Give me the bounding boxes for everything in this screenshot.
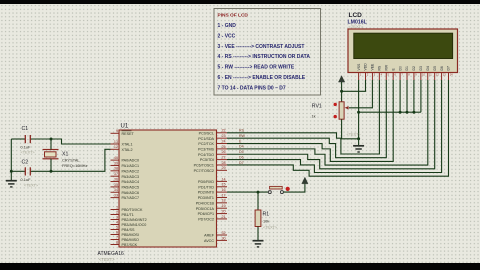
svg-text:6 - EN ---------> ENABLE OR DI: 6 - EN ---------> ENABLE OR DISABLE: [218, 75, 306, 81]
svg-text:29: 29: [221, 166, 225, 170]
svg-text:PB5/MOSI: PB5/MOSI: [122, 233, 139, 237]
capacitor C1: [25, 135, 30, 143]
power VCC (above RV1): [338, 75, 344, 82]
net label E: [239, 139, 242, 143]
svg-text:PA4/ADC4: PA4/ADC4: [122, 180, 140, 184]
junction VDD/VCC: [340, 90, 343, 93]
svg-text:D6: D6: [440, 66, 444, 70]
svg-text:40: 40: [114, 156, 118, 160]
svg-text:CRYSTAL: CRYSTAL: [62, 158, 80, 163]
value C1 0.1uF: [21, 144, 32, 149]
value C2 0.1uF: [21, 177, 32, 182]
svg-text:32: 32: [221, 231, 225, 235]
bottom letterbox bar: [0, 263, 480, 270]
label FREQ=16MHz: [62, 163, 87, 168]
svg-text:PC3/TMS: PC3/TMS: [198, 147, 215, 151]
ground (crystal circuit): [6, 181, 17, 187]
net label D6: [239, 155, 244, 159]
power VCC (button): [302, 177, 308, 184]
label C1 TEXT: [21, 150, 36, 154]
svg-text:38: 38: [114, 167, 118, 171]
svg-text:2 - VCC: 2 - VCC: [218, 33, 236, 39]
svg-text:13: 13: [114, 140, 118, 144]
svg-text:22: 22: [221, 129, 225, 133]
wire VCC to pot: [341, 82, 343, 102]
svg-text:3 - VEE ---------> CONTRAST AD: 3 - VEE ---------> CONTRAST ADJUST: [218, 44, 305, 50]
svg-text:<TEXT>: <TEXT>: [24, 183, 39, 187]
U1 left pins (RESET XTAL1 XTAL2 PA0-PA7 PB0-PB7): [111, 129, 147, 247]
net label D7: [239, 161, 244, 165]
wire pot bottom to ground: [342, 119, 359, 139]
svg-text:C1: C1: [22, 126, 29, 132]
svg-text:PA3/ADC3: PA3/ADC3: [122, 175, 140, 179]
net label D5: [239, 150, 244, 154]
wire RS net (U1 to LCD): [227, 80, 379, 154]
resistor R1: [255, 210, 261, 227]
svg-text:PC0/SCL: PC0/SCL: [199, 131, 214, 135]
wire VSS net: [358, 80, 360, 145]
svg-text:PA6/ADC6: PA6/ADC6: [122, 191, 140, 195]
svg-text:37: 37: [114, 172, 118, 176]
svg-text:27: 27: [221, 156, 225, 160]
svg-text:16: 16: [221, 188, 225, 192]
svg-text:8: 8: [116, 240, 118, 244]
svg-text:XTAL1: XTAL1: [122, 143, 133, 147]
svg-text:36: 36: [114, 177, 118, 181]
svg-text:PD6/ICP1: PD6/ICP1: [198, 212, 214, 216]
svg-text:17: 17: [221, 193, 225, 197]
svg-text:RS: RS: [239, 129, 245, 133]
svg-text:PB2/AIN0/INT2: PB2/AIN0/INT2: [122, 218, 147, 222]
svg-text:0.1uF: 0.1uF: [21, 144, 32, 149]
svg-text:RV1: RV1: [312, 103, 322, 109]
svg-text:4 - RS ---------> INSTRUCTION: 4 - RS ---------> INSTRUCTION OR DATA: [218, 54, 311, 60]
label C2: [22, 159, 29, 165]
wire VDD net: [342, 80, 366, 91]
net label RW: [239, 134, 246, 138]
svg-text:D6: D6: [239, 155, 244, 159]
svg-text:35: 35: [114, 183, 118, 187]
svg-text:D3: D3: [419, 66, 423, 70]
value RV1 1k: [312, 114, 316, 119]
svg-text:25: 25: [221, 145, 225, 149]
svg-text:PA0/ADC0: PA0/ADC0: [122, 159, 140, 163]
svg-text:PINS OF LCD: PINS OF LCD: [218, 12, 249, 18]
svg-text:<TEXT>: <TEXT>: [347, 133, 362, 137]
svg-text:PB4/SS: PB4/SS: [122, 228, 135, 232]
svg-text:21: 21: [221, 215, 225, 219]
wire button to VCC: [283, 183, 305, 192]
svg-text:D7: D7: [447, 66, 451, 70]
svg-text:PC5/TDI: PC5/TDI: [200, 158, 214, 162]
svg-text:PB6/MISO: PB6/MISO: [122, 238, 140, 242]
svg-text:5: 5: [116, 225, 118, 229]
microcontroller U1 body: [119, 130, 217, 247]
svg-text:PC1/SDA: PC1/SDA: [198, 137, 214, 141]
svg-text:7 TO 14 - DATA PINS D0 – D7: 7 TO 14 - DATA PINS D0 – D7: [218, 86, 286, 92]
svg-text:PB3/AIN1/OC0: PB3/AIN1/OC0: [122, 223, 147, 227]
svg-text:AREF: AREF: [204, 234, 215, 238]
svg-text:PA7/ADC7: PA7/ADC7: [122, 196, 140, 200]
junction VSS/pot: [357, 137, 360, 140]
junction D0: [399, 111, 402, 114]
junction D1: [406, 111, 409, 114]
svg-text:D0: D0: [398, 66, 402, 70]
label R1: [263, 211, 270, 217]
svg-text:39: 39: [114, 161, 118, 165]
svg-text:<TEXT>: <TEXT>: [21, 150, 36, 154]
junction D2: [412, 111, 415, 114]
svg-text:12: 12: [114, 145, 118, 149]
svg-text:VSS: VSS: [357, 63, 361, 71]
wire D4 net (U1 to LCD): [227, 80, 428, 165]
svg-text:PB7/SCK: PB7/SCK: [122, 243, 138, 247]
svg-text:C2: C2: [22, 159, 29, 165]
U1 right pins (PC0-PC7 PD0-PD7 AREF AVCC): [194, 129, 227, 243]
svg-text:PD4/OC1B: PD4/OC1B: [196, 201, 215, 205]
svg-text:PC6/TOSC1: PC6/TOSC1: [194, 164, 214, 168]
wire R1 top: [257, 192, 259, 210]
svg-text:PA5/ADC5: PA5/ADC5: [122, 186, 140, 190]
junction R1 top: [257, 191, 260, 194]
wire E net (U1 to LCD): [227, 80, 393, 161]
junction crystal bottom: [50, 170, 53, 173]
label ATMEGA16: [98, 251, 125, 257]
svg-text:3: 3: [116, 215, 118, 219]
wire R1 bottom: [257, 227, 259, 241]
top letterbox bar: [0, 0, 480, 4]
svg-text:34: 34: [114, 188, 118, 192]
LCD reference labels: [348, 12, 368, 29]
svg-text:RESET: RESET: [122, 132, 135, 136]
wire XTAL1 net: [11, 139, 110, 144]
svg-text:23: 23: [221, 134, 225, 138]
svg-text:D5: D5: [239, 150, 244, 154]
svg-text:24: 24: [221, 139, 225, 143]
svg-text:XTAL2: XTAL2: [122, 148, 133, 152]
svg-text:PB0/T0/XCK: PB0/T0/XCK: [122, 208, 143, 212]
note PINS OF LCD: [214, 9, 321, 96]
svg-text:30: 30: [221, 236, 225, 240]
svg-text:R1: R1: [263, 211, 270, 217]
svg-text:20: 20: [221, 209, 225, 213]
svg-text:14: 14: [221, 177, 225, 181]
label C2 TEXT: [24, 183, 39, 187]
svg-text:PC7/TOSC2: PC7/TOSC2: [194, 169, 214, 173]
ground (R1): [253, 241, 264, 247]
svg-text:9: 9: [116, 129, 118, 133]
label RV1 TEXT: [347, 133, 362, 137]
svg-text:D5: D5: [433, 66, 437, 70]
push button: [268, 186, 290, 193]
label X1: [62, 151, 68, 157]
LCD pin numbers: [360, 74, 453, 77]
svg-text:7: 7: [116, 235, 118, 239]
net label RS: [239, 129, 245, 133]
svg-text:RW: RW: [239, 134, 246, 138]
svg-text:X1: X1: [62, 151, 68, 157]
svg-text:28: 28: [221, 161, 225, 165]
svg-text:<TEXT>: <TEXT>: [263, 225, 278, 229]
wire XTAL2 net: [11, 149, 110, 171]
label C1: [22, 126, 29, 132]
svg-text:PD7/OC2: PD7/OC2: [198, 218, 214, 222]
wire D6 net (U1 to LCD): [227, 80, 442, 173]
svg-text:18: 18: [221, 199, 225, 203]
junction VSS/D0-D3: [357, 111, 360, 114]
svg-text:4: 4: [116, 220, 118, 224]
svg-text:D4: D4: [239, 145, 244, 149]
svg-text:PA2/ADC2: PA2/ADC2: [122, 169, 140, 173]
svg-text:PD2/INT0: PD2/INT0: [198, 191, 214, 195]
wire crystal top leg: [50, 139, 52, 150]
junction ground bus / C2: [10, 170, 13, 173]
svg-text:PD1/TXD: PD1/TXD: [198, 185, 214, 189]
capacitor C2: [25, 167, 30, 175]
label R1 TEXT: [263, 225, 278, 229]
svg-text:PC2/TCK: PC2/TCK: [198, 142, 214, 146]
label RV1: [312, 103, 322, 109]
svg-text:PC4/TDO: PC4/TDO: [198, 153, 214, 157]
svg-text:AVCC: AVCC: [204, 239, 214, 243]
crystal X1: [43, 150, 59, 159]
label U1 TEXT: [99, 257, 115, 262]
wire D0-D3 tie: [359, 80, 421, 112]
svg-text:LCD: LCD: [349, 12, 363, 19]
svg-text:PB1/T1: PB1/T1: [122, 213, 134, 217]
svg-text:26: 26: [221, 150, 225, 154]
wire D5 net (U1 to LCD): [227, 80, 435, 169]
svg-text:2: 2: [116, 210, 118, 214]
wire RW net (U1 to LCD): [227, 80, 386, 158]
junction crystal top: [50, 138, 53, 141]
potentiometer RV1: [334, 102, 349, 119]
svg-text:6: 6: [116, 230, 118, 234]
svg-text:10k: 10k: [263, 218, 269, 223]
svg-text:<TEXT>: <TEXT>: [99, 257, 115, 262]
svg-text:FREQ=16MHz: FREQ=16MHz: [62, 163, 87, 168]
svg-text:PA1/ADC1: PA1/ADC1: [122, 164, 140, 168]
svg-text:RS: RS: [378, 65, 382, 70]
svg-text:5 - RW ---------> READ OR WRIT: 5 - RW ---------> READ OR WRITE: [218, 65, 295, 71]
wire PD2 to button: [227, 191, 268, 193]
svg-text:PD3/INT1: PD3/INT1: [198, 196, 214, 200]
svg-text:0.1uF: 0.1uF: [21, 177, 32, 182]
LCD LM016L body: [348, 29, 458, 73]
label U1: [121, 124, 129, 130]
svg-text:15: 15: [221, 183, 225, 187]
wire D7 net (U1 to LCD): [227, 80, 449, 176]
svg-text:U1: U1: [121, 124, 129, 130]
svg-text:19: 19: [221, 204, 225, 208]
svg-text:VDD: VDD: [364, 63, 368, 71]
label CRYSTAL: [62, 158, 80, 163]
wire crystal bottom leg: [50, 159, 52, 172]
net label D4: [239, 145, 244, 149]
svg-text:1: 1: [116, 205, 118, 209]
svg-text:PD5/OC1A: PD5/OC1A: [196, 207, 215, 211]
wire VEE net: [349, 80, 372, 108]
svg-text:33: 33: [114, 194, 118, 198]
svg-text:PD0/RXD: PD0/RXD: [198, 180, 214, 184]
LCD screen: [354, 33, 453, 58]
svg-text:D7: D7: [239, 161, 244, 165]
svg-text:D1: D1: [405, 66, 409, 70]
ground (LCD VSS): [353, 146, 364, 152]
LCD pin name labels: [357, 63, 451, 71]
wire left ground bus: [10, 139, 12, 180]
svg-text:1k: 1k: [312, 114, 316, 119]
svg-text:1 - GND: 1 - GND: [218, 23, 237, 29]
svg-text:D4: D4: [426, 66, 430, 70]
svg-text:VEE: VEE: [371, 63, 375, 71]
value R1 10k: [263, 218, 269, 223]
svg-text:D2: D2: [412, 66, 416, 70]
svg-text:RW: RW: [384, 64, 388, 70]
LCD pin stubs 1-14: [359, 73, 449, 81]
